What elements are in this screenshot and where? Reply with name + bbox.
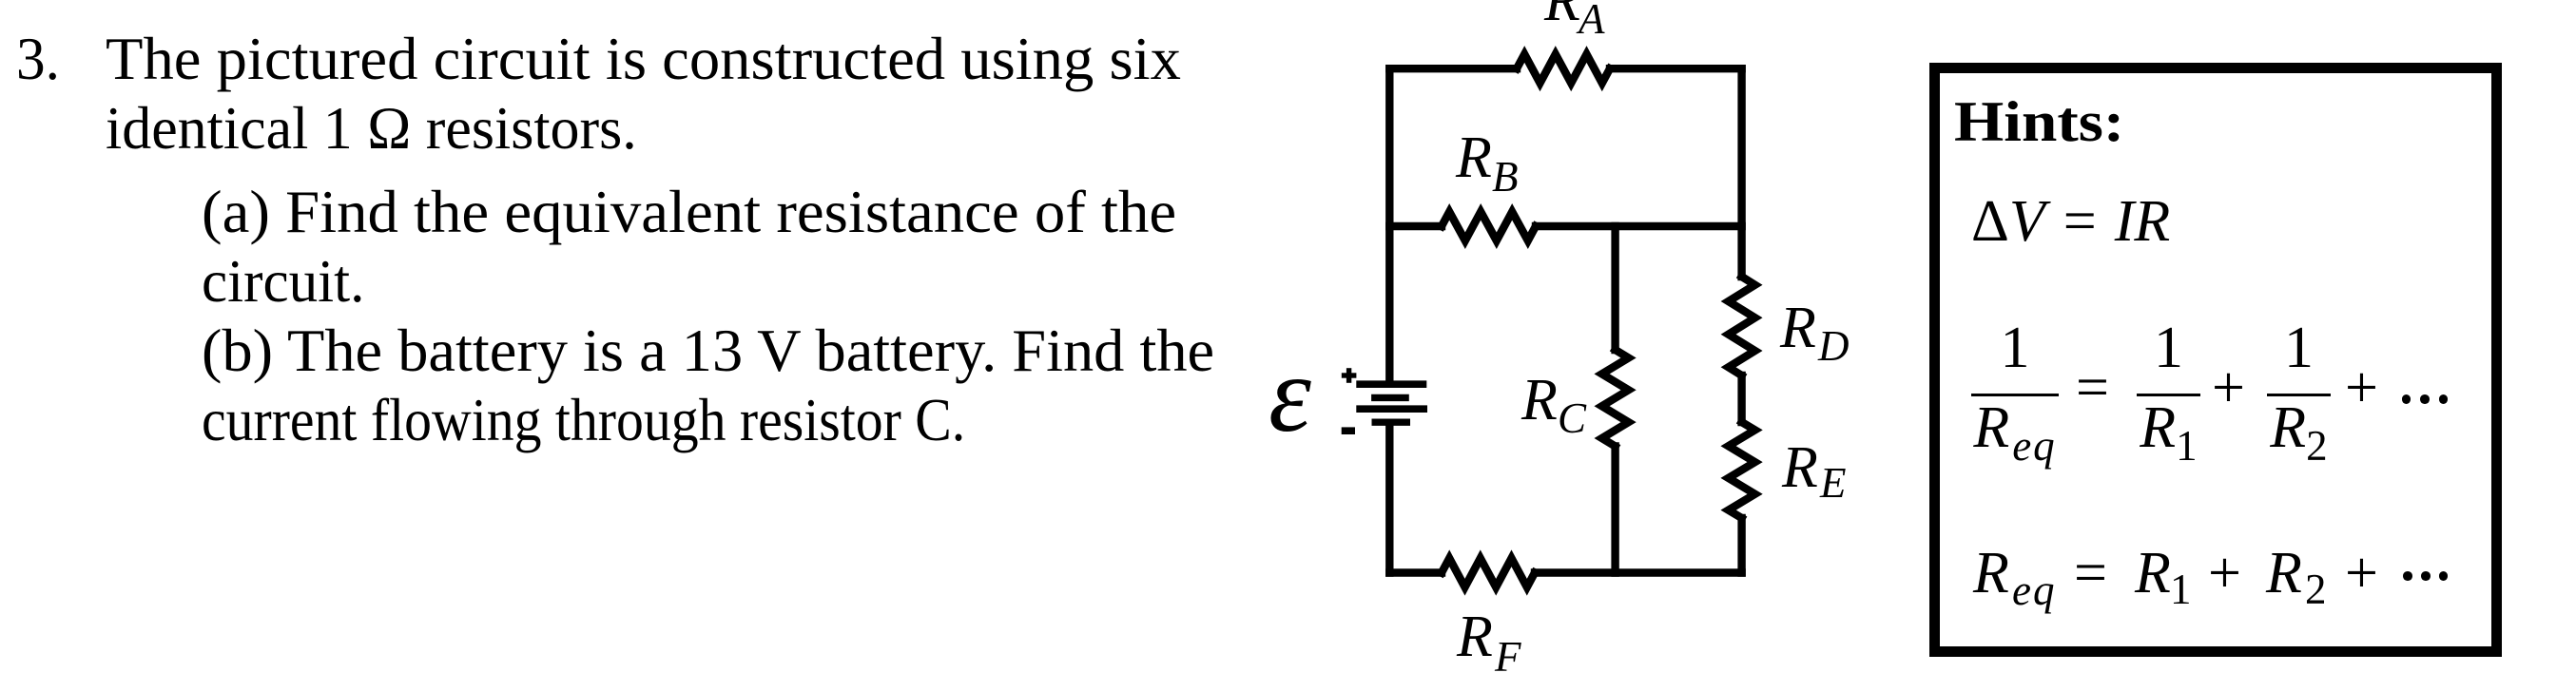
wire: R_E down to bottom-right corner: [1737, 518, 1745, 573]
label R_A: [1543, 0, 1605, 43]
svg-text:R: R: [1781, 435, 1818, 500]
part (a) line 1: [202, 182, 1176, 242]
battery long plate 3: [1356, 405, 1427, 413]
wire: R_B to right vertical wire: [1536, 222, 1742, 230]
wire: right vertical from top corner down to R_D: [1737, 68, 1745, 277]
hints title: [1954, 93, 2124, 150]
problem statement line 1: [106, 29, 1181, 89]
resistor R_B (zigzag on middle horizontal wire): [1442, 212, 1536, 240]
resistor R_F (zigzag on bottom wire): [1442, 558, 1535, 586]
resistor R_A (zigzag on top wire): [1517, 54, 1610, 83]
part (b) line 2: [202, 390, 965, 451]
svg-text:E: E: [1819, 459, 1847, 507]
svg-text:D: D: [1817, 322, 1850, 370]
wire: R_B row from left wire to R_B: [1389, 222, 1442, 230]
battery negative short plate: [1372, 419, 1411, 426]
wire: middle branch T-junction down to R_C: [1611, 226, 1618, 350]
wire: R_A to top-right corner: [1610, 65, 1742, 72]
label R_C: [1520, 368, 1587, 442]
svg-text:R: R: [1520, 368, 1558, 432]
svg-text:F: F: [1494, 633, 1521, 681]
wire: top-left corner to R_A: [1389, 65, 1517, 72]
svg-text:R: R: [1779, 296, 1816, 360]
wire: left vertical from battery - plate down to bottom corner: [1385, 426, 1393, 573]
svg-text:R: R: [1455, 125, 1492, 190]
svg-text:ε: ε: [1269, 334, 1311, 454]
resistor R_E (vertical zigzag, right branch): [1729, 422, 1755, 518]
wire: bottom-left corner to R_F: [1389, 568, 1442, 576]
resistor R_D (vertical zigzag, right branch): [1729, 277, 1755, 375]
hints box frame: [1929, 63, 2502, 657]
svg-text:A: A: [1576, 0, 1605, 43]
part (a) line 2: [202, 251, 364, 312]
battery positive long plate: [1356, 380, 1426, 388]
wire: left vertical from top corner down to battery + plate: [1385, 68, 1393, 380]
problem number 3.: [16, 29, 60, 89]
resistor R_C (vertical zigzag, middle branch): [1602, 350, 1629, 447]
part (b) line 1: [202, 320, 1214, 381]
svg-text:R: R: [1543, 0, 1580, 33]
wire: between R_D and R_E: [1737, 375, 1745, 422]
battery plus sign: [1346, 368, 1351, 383]
formula dV=IR: [1971, 192, 2170, 251]
wire: R_F to bottom-right corner: [1535, 568, 1742, 576]
svg-text:B: B: [1492, 153, 1519, 201]
svg-text:C: C: [1558, 394, 1587, 442]
battery minus sign: [1342, 427, 1355, 434]
problem statement line 2: [106, 98, 637, 159]
label R_B: [1455, 125, 1519, 201]
formula Req = R1 + R2 + ...: [1973, 544, 2009, 603]
svg-text:R: R: [1456, 605, 1493, 669]
label R_D: [1779, 296, 1850, 370]
wire: R_C down to bottom wire T-junction: [1611, 447, 1618, 573]
battery short plate 2: [1371, 394, 1409, 401]
label R_E: [1781, 435, 1847, 507]
formula 1/Req = 1/R1 + 1/R2 + ...: [1971, 313, 2448, 463]
label R_F: [1456, 605, 1521, 681]
